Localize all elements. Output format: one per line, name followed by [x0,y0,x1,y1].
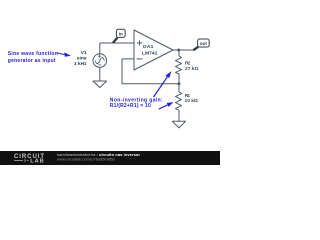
voltage source V1 [93,54,107,68]
wire top horizontal to op-amp + input [100,42,134,44]
svg-text:1 kHz: 1 kHz [74,61,87,67]
node in flag [116,29,125,37]
svg-text:out: out [200,41,207,46]
svg-text:V1: V1 [81,50,87,56]
annotation arrow to R1 [159,102,174,109]
svg-text:LM741: LM741 [142,50,158,56]
ground under V1 [93,81,107,88]
node out flag [198,39,210,47]
label R1 value [185,93,198,104]
wire R1 to ground [178,110,180,121]
label R2 value [185,61,199,72]
label V1 value [74,50,87,67]
wire junction to R1 [178,84,180,92]
annotation arrow to R2 [154,71,172,97]
junction R2-R1 node [178,82,181,85]
wire R2 bottom [178,74,180,84]
svg-text:www.circuitlab.com/c/78u85m8f5: www.circuitlab.com/c/78u85m8f5x [57,156,115,161]
wire inverting input [122,58,134,60]
ground under R1 [172,121,185,128]
svg-text:27 kΩ: 27 kΩ [185,66,199,72]
resistor R2 [176,56,182,74]
junction output node [177,49,180,52]
op-amp OA1 [134,30,173,70]
wire V1 bottom to ground [99,67,101,81]
svg-text:R2: R2 [185,61,191,67]
svg-text:sine: sine [77,56,87,62]
svg-text:in: in [119,32,123,37]
svg-text:Sine wave function: Sine wave function [8,51,58,57]
footer CircuitLab logo [14,154,44,164]
svg-text:OA1: OA1 [143,44,154,50]
wire V1 top vertical [99,43,101,54]
wire output to R2 [178,50,180,56]
svg-text:R1: R1 [185,93,191,99]
annotation arrow to V1 [57,52,71,56]
resistor R1 [176,92,182,110]
annotation sine wave text [8,51,58,64]
node in flag tail [113,38,118,43]
wire feedback horizontal [122,83,179,85]
svg-text:generator as input: generator as input [8,58,56,64]
svg-text:LAB: LAB [30,158,44,164]
wire op-amp output [173,49,193,51]
annotation gain text [110,98,163,109]
wire feedback vertical [121,59,123,84]
footer bar [0,151,220,165]
svg-text:R1/(R2+R1) = 10: R1/(R2+R1) = 10 [110,103,151,109]
svg-text:10 kΩ: 10 kΩ [185,98,198,104]
node out flag tail [193,47,198,50]
